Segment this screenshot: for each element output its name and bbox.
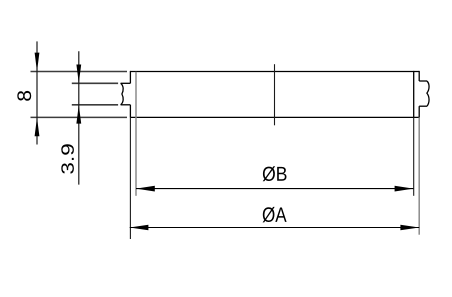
dimension ØB arrow right [395,186,414,192]
dimension 8 arrow top [35,53,40,72]
label 8 [17,91,31,101]
extension line ØB right (continuation of right edge) [413,117,415,195]
right break top step horizontal [419,80,427,82]
dimension ØA line [130,227,420,229]
right break bottom step horizontal [419,105,427,107]
dimension ØA arrow left [130,225,149,230]
label ØA [263,207,287,223]
left notch top step [121,82,131,84]
extension line ØB left (gray) [135,72,137,196]
extension line notch bottom (for 3.9) [72,104,118,106]
left break curve [121,83,124,105]
right break step bottom vertical [418,106,420,117]
extension line ØA right (gray) [418,117,420,234]
sleeve bottom edge [130,116,419,118]
extension line bottom edge (for 8) [31,116,128,118]
extension line notch top (for 3.9) [72,82,118,84]
center line [274,64,276,125]
dimension 3.9 line [78,51,80,184]
label ØB [263,166,287,181]
dimension ØB arrow left [136,186,155,192]
left notch bottom step [121,104,131,106]
label 3.9 [61,144,74,174]
extension line ØA left (continuation of left edge) [129,117,131,239]
dimension 3.9 arrow bottom [76,105,81,124]
right break step top vertical [418,71,420,81]
sleeve right edge [413,71,415,118]
dimension 8 line [36,41,38,144]
sleeve left edge upper segment [129,71,131,83]
sleeve top edge [130,71,419,73]
dimension 8 arrow bottom [35,117,40,136]
right break curve [427,81,429,106]
extension line top edge (for 8) [31,71,128,73]
dimension ØB line [136,188,413,190]
dimension ØA arrow right [400,225,419,230]
dimension 3.9 arrow top [76,65,81,84]
sleeve left edge lower segment [129,105,131,118]
